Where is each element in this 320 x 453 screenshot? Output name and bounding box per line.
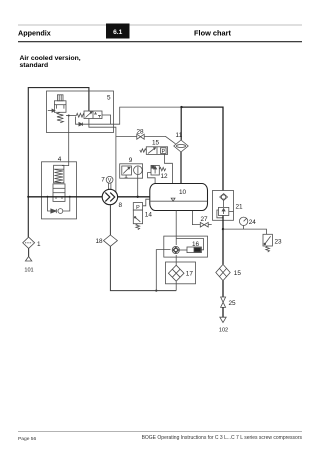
suction regulator spring xyxy=(57,112,63,123)
thermo bypass loop xyxy=(176,239,203,250)
label 16 xyxy=(192,241,200,248)
svg-text:11: 11 xyxy=(176,132,183,139)
wire: block vent line down to airend xyxy=(89,119,116,193)
label 15 right xyxy=(234,270,242,277)
bypass check nozzle xyxy=(51,209,63,214)
pilot valve spring xyxy=(76,113,84,117)
svg-text:102: 102 xyxy=(219,328,228,334)
header rule top xyxy=(18,24,302,26)
junction bypass right xyxy=(69,196,71,198)
label 15 top xyxy=(152,140,160,147)
svg-text:8: 8 xyxy=(119,202,123,209)
wire: block output loop right xyxy=(102,115,111,124)
svg-text:21: 21 xyxy=(236,203,244,210)
pressure gauge 24 xyxy=(239,217,247,229)
label V in 7 xyxy=(108,178,112,184)
wire: 14 tap to vessel xyxy=(143,199,150,206)
oil separator 11 xyxy=(174,140,188,152)
svg-text:14: 14 xyxy=(145,211,153,218)
node: intake arrow 101 xyxy=(25,248,31,261)
solenoid valve 15 xyxy=(146,147,167,155)
header section box 6.1 xyxy=(106,24,130,39)
label 10 xyxy=(179,189,187,196)
label 7 xyxy=(101,177,105,184)
svg-text:Page 56: Page 56 xyxy=(18,436,37,442)
label 23 xyxy=(275,239,283,246)
oil filter 18 xyxy=(104,235,118,246)
label 27 xyxy=(200,216,208,223)
svg-text:7: 7 xyxy=(101,177,105,184)
junction main/riser xyxy=(27,196,29,198)
enclosure box 16 xyxy=(164,236,208,257)
svg-text:28: 28 xyxy=(136,128,144,135)
svg-text:5: 5 xyxy=(107,95,111,102)
svg-text:15: 15 xyxy=(234,270,242,277)
oil cooler 17 xyxy=(168,265,184,281)
wire: bypass loop under intake valve xyxy=(48,197,70,211)
check valve in 21 xyxy=(220,194,228,201)
solenoid spring xyxy=(140,149,147,152)
svg-text:Appendix: Appendix xyxy=(18,29,51,38)
svg-text:9: 9 xyxy=(129,157,133,164)
wire: vessel down to thermostat 16 xyxy=(175,211,177,246)
vent indicator 7 xyxy=(106,176,113,183)
wire check to regulator xyxy=(223,201,225,208)
enclosure box 5 xyxy=(47,91,114,133)
intake valve actuator cylinder xyxy=(54,165,64,183)
svg-text:standard: standard xyxy=(20,62,49,69)
pressure transducer 23 xyxy=(263,234,272,252)
junction bypass left xyxy=(47,196,49,198)
temperature gauge in 9 xyxy=(134,166,143,175)
svg-text:10: 10 xyxy=(179,189,187,196)
junction gauge/main xyxy=(137,196,139,198)
intake valve body xyxy=(53,184,65,202)
wire: aftercooler to valve 25 xyxy=(222,281,224,297)
wire: thermostat side branch xyxy=(156,250,170,291)
aftercooler 15 xyxy=(216,264,230,280)
wire: oil cooler to return line xyxy=(175,281,177,290)
intake filter 1 xyxy=(23,237,35,248)
mini valve in 9 xyxy=(122,166,132,178)
junction return/branch xyxy=(155,290,157,292)
svg-text:4: 4 xyxy=(58,156,62,163)
label 18 xyxy=(96,238,104,245)
wire: down from junction to separator 11 xyxy=(180,107,182,140)
svg-text:P: P xyxy=(161,149,165,155)
main suction line xyxy=(28,196,102,198)
junction gauge line xyxy=(222,228,224,230)
header rule bottom xyxy=(18,41,302,43)
drain valve 27 xyxy=(192,211,211,227)
wire: scavenge line with valve 28 xyxy=(116,136,176,143)
footer right xyxy=(142,435,303,441)
wire: solenoid to vessel top xyxy=(165,154,173,183)
label 17 xyxy=(186,271,194,278)
gauge block 9 xyxy=(120,164,143,178)
oil receiver vessel 10 xyxy=(150,184,208,211)
svg-text:17: 17 xyxy=(186,271,194,278)
wire: line to pressure transducer 23 xyxy=(223,229,267,234)
label 12 xyxy=(161,173,169,180)
thermostatic valve circle xyxy=(172,246,179,253)
enclosure box 21 xyxy=(213,191,234,221)
section heading xyxy=(20,55,81,69)
svg-text:1: 1 xyxy=(37,241,41,248)
stem 7 to 8 xyxy=(108,183,111,190)
label 14 xyxy=(145,211,153,218)
svg-text:18: 18 xyxy=(96,238,104,245)
svg-text:Flow chart: Flow chart xyxy=(194,29,231,38)
main line airend to vessel xyxy=(118,196,150,198)
suction regulator body xyxy=(54,101,66,113)
svg-text:27: 27 xyxy=(200,216,208,223)
min pressure regulator in 21 xyxy=(217,207,234,217)
svg-text:6.1: 6.1 xyxy=(113,29,122,36)
label 1 xyxy=(37,241,41,248)
outlet arrow 102 xyxy=(220,307,226,322)
valve 28 xyxy=(137,134,144,139)
enclosure box 17 xyxy=(166,262,196,284)
check valve on pilot loop xyxy=(79,123,83,126)
svg-text:15: 15 xyxy=(152,140,160,147)
label 25 xyxy=(229,300,237,307)
label 5 xyxy=(107,95,111,102)
label 21 xyxy=(236,203,244,210)
label P in 14 xyxy=(136,205,140,211)
thermo element xyxy=(179,247,201,253)
oil level mark xyxy=(171,198,175,201)
airend 8 xyxy=(102,189,117,204)
svg-text:12: 12 xyxy=(161,173,169,180)
header title Appendix xyxy=(18,29,51,38)
svg-text:BOGE Operating Instructions fo: BOGE Operating Instructions for C 3 L...… xyxy=(142,435,303,441)
safety valve 12 xyxy=(148,165,166,183)
wire: oil return line xyxy=(110,246,176,290)
pilot valve block (3/2 valve) xyxy=(84,111,102,119)
svg-text:P: P xyxy=(136,205,140,211)
label 9 xyxy=(129,157,133,164)
svg-text:Air cooled version,: Air cooled version, xyxy=(20,55,81,62)
wire: gauge down to main line xyxy=(137,175,139,197)
wire: thermostat down to oil cooler xyxy=(175,255,177,265)
footer left xyxy=(18,436,37,442)
label 24 xyxy=(249,219,257,226)
suction regulator inlet arrow xyxy=(48,109,55,112)
wire: 21 down to aftercooler xyxy=(222,216,224,265)
wire: pilot line down to intake valve 4 xyxy=(62,116,69,166)
svg-text:23: 23 xyxy=(275,239,283,246)
svg-text:24: 24 xyxy=(249,219,257,226)
junction top xyxy=(180,106,182,108)
wire: separator to vessel xyxy=(180,152,182,184)
label 102 xyxy=(219,328,228,334)
wire: discharge control line thick top xyxy=(182,107,224,190)
header title Flow chart xyxy=(194,29,231,38)
svg-text:101: 101 xyxy=(24,268,33,274)
label 28 xyxy=(136,128,144,135)
wire: intake riser from filter 1 up to box 5 xyxy=(28,88,89,238)
wire: pilot line from regulator to pilot valve block xyxy=(66,115,76,117)
svg-text:25: 25 xyxy=(229,300,237,307)
junction pilot tee xyxy=(68,115,70,117)
enclosure box 4 xyxy=(42,162,77,219)
footer rule xyxy=(18,431,302,433)
wire: oil filter up to airend xyxy=(109,205,111,235)
label 11 xyxy=(176,132,183,139)
shut-off valve 25 xyxy=(221,297,226,307)
label P in solenoid xyxy=(161,149,165,155)
label 101 xyxy=(24,268,33,274)
label 8 xyxy=(119,202,123,209)
wire: pilot loop under block xyxy=(76,107,182,124)
suction regulator plunger xyxy=(57,95,63,101)
pressure switch 14 xyxy=(133,203,142,230)
label 4 xyxy=(58,156,62,163)
